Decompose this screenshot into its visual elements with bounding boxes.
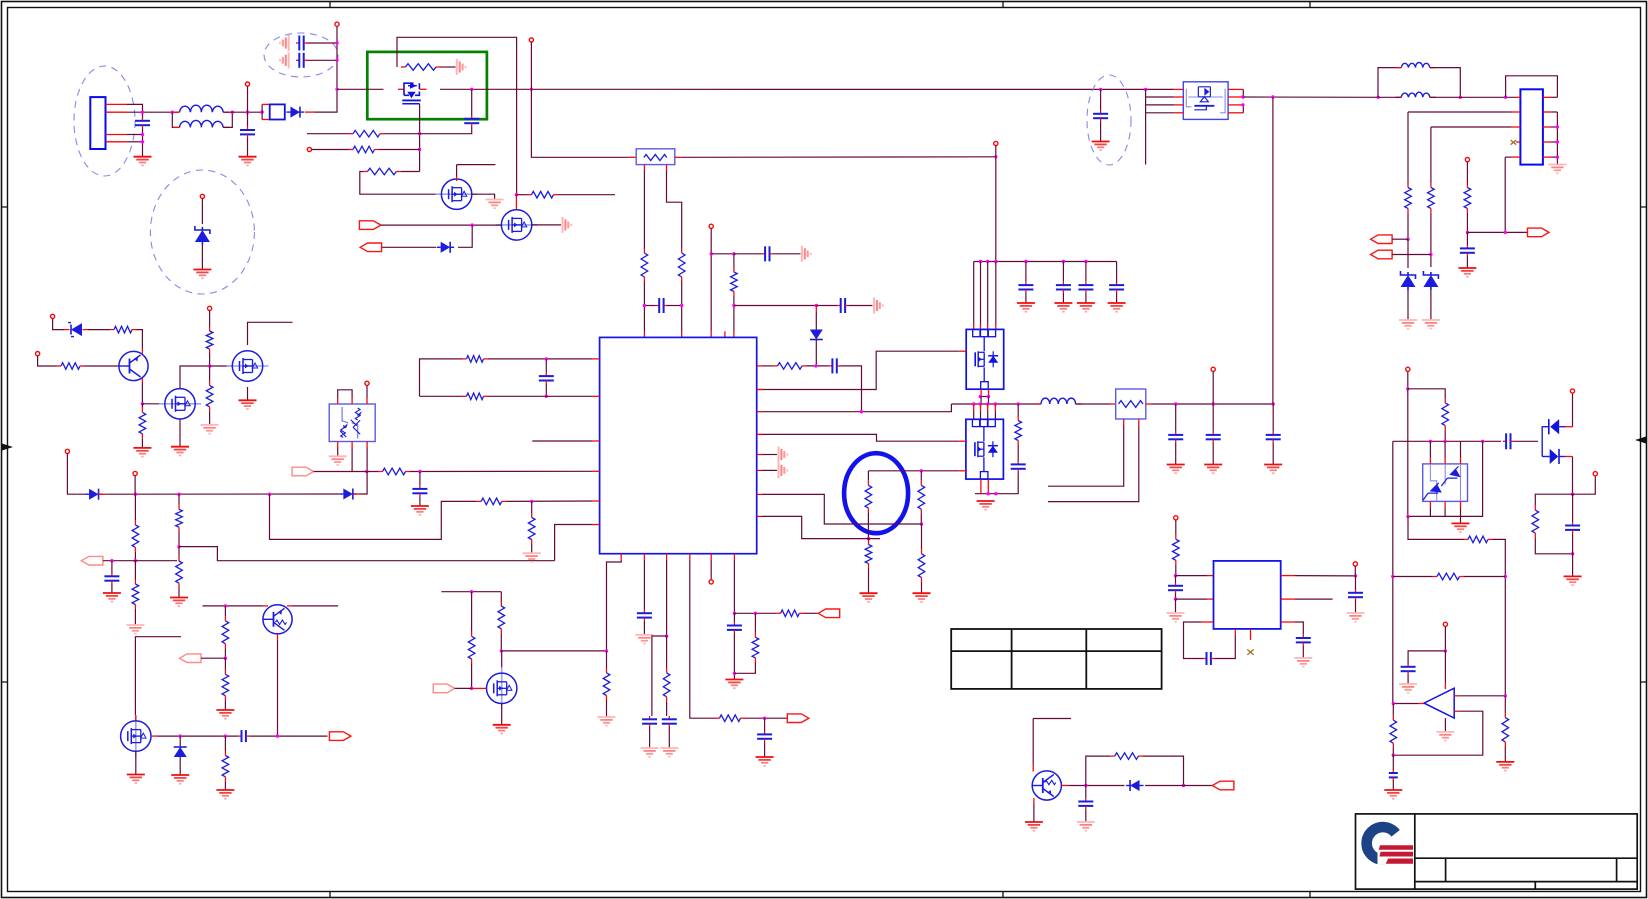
wire <box>764 742 766 757</box>
wire <box>868 470 959 472</box>
mosfet Q3 <box>496 210 538 240</box>
wire <box>816 305 837 307</box>
ground <box>457 59 466 75</box>
wire <box>397 37 517 194</box>
wire <box>868 539 870 540</box>
wire <box>401 171 420 173</box>
wire <box>1138 419 1140 426</box>
ground <box>641 748 659 757</box>
junction <box>732 304 735 307</box>
junction <box>1084 784 1087 787</box>
junction <box>171 111 174 114</box>
open pin <box>1570 389 1574 393</box>
wire <box>848 305 872 307</box>
wire <box>178 547 180 557</box>
wire <box>1175 594 1177 600</box>
wire <box>1466 232 1468 245</box>
wire <box>1429 507 1431 516</box>
pin <box>1250 629 1252 640</box>
wire <box>1392 780 1394 790</box>
wire <box>1392 254 1431 256</box>
wire <box>85 365 120 367</box>
wire <box>106 493 339 495</box>
junction <box>1504 231 1507 234</box>
wire <box>500 633 502 651</box>
wire <box>263 605 268 607</box>
ground <box>1436 732 1454 741</box>
resistor R28 <box>222 751 229 781</box>
wire <box>1145 89 1147 164</box>
capacitor <box>1266 432 1281 443</box>
junction <box>470 687 473 690</box>
resistor R23 <box>139 408 146 438</box>
pin <box>1228 96 1243 98</box>
wire <box>1444 507 1446 516</box>
wire <box>351 442 353 448</box>
port <box>433 684 455 693</box>
wire <box>745 717 787 719</box>
wire <box>1467 231 1527 233</box>
ground <box>779 447 788 463</box>
port <box>360 243 382 252</box>
wire <box>419 104 421 172</box>
ground <box>860 593 878 602</box>
wire <box>1017 445 1019 461</box>
junction <box>141 111 144 114</box>
resistor R2 <box>349 130 385 137</box>
capacitor <box>1078 282 1093 293</box>
junction <box>979 395 982 398</box>
wire <box>959 350 966 352</box>
pin J2-1 <box>1516 96 1521 98</box>
junction <box>733 672 736 675</box>
wire <box>1061 785 1068 787</box>
wire <box>1068 785 1124 787</box>
resistor R30 <box>498 602 505 634</box>
wire <box>1431 126 1512 128</box>
junction <box>418 132 421 135</box>
wire <box>1017 404 1019 416</box>
wire <box>88 329 110 331</box>
wire <box>1146 112 1175 114</box>
capacitor C17 <box>727 622 742 633</box>
wire <box>111 561 113 573</box>
resistor R33 <box>715 715 745 722</box>
pin <box>1228 112 1243 114</box>
junction <box>470 88 473 91</box>
p-mosfet Q1 <box>398 83 427 104</box>
open pin <box>65 449 69 453</box>
capacitor C29 <box>1078 798 1093 809</box>
no-connect cross <box>1247 650 1253 655</box>
junction <box>545 395 548 398</box>
wire <box>103 560 177 562</box>
wire <box>353 493 359 495</box>
junction <box>1429 253 1432 256</box>
ground <box>660 748 678 757</box>
wire <box>141 404 143 408</box>
wire <box>1272 404 1274 432</box>
wire <box>1100 122 1102 142</box>
junction <box>335 88 338 91</box>
wire <box>1207 598 1214 600</box>
wire <box>1085 293 1087 303</box>
junction <box>986 260 989 263</box>
wire <box>754 613 756 633</box>
port <box>81 556 103 565</box>
capacitor C25 <box>1168 583 1183 594</box>
wire <box>351 398 353 404</box>
port <box>292 467 314 476</box>
transistor Q9 <box>1032 771 1061 800</box>
wire <box>224 700 226 710</box>
capacitor <box>1206 432 1221 443</box>
wire <box>67 454 85 495</box>
capacitor C6 <box>762 246 773 261</box>
wire <box>995 262 997 324</box>
diode D11 <box>1126 780 1144 791</box>
ground <box>1204 465 1222 474</box>
resistor R37 <box>865 481 872 513</box>
wire <box>1393 711 1483 755</box>
wire <box>1504 157 1506 232</box>
wire <box>1504 746 1506 762</box>
wire <box>1176 575 1208 577</box>
resistor R16 <box>132 580 139 610</box>
junction <box>1241 103 1244 106</box>
wire <box>1085 262 1087 282</box>
wire <box>973 411 975 419</box>
wire <box>667 171 682 249</box>
capacitor C16 <box>757 731 772 742</box>
wire <box>456 177 458 182</box>
wire <box>681 282 683 332</box>
resistor R14 <box>378 468 410 475</box>
ground <box>280 35 289 51</box>
inductor L1a <box>174 105 230 112</box>
wire <box>1408 389 1445 399</box>
wire <box>307 133 349 135</box>
pin <box>1281 575 1295 577</box>
wire <box>127 134 143 136</box>
wire <box>1033 718 1071 720</box>
resistor R32 <box>663 668 670 701</box>
junction <box>665 634 668 637</box>
wire <box>1048 426 1124 487</box>
pin <box>592 524 599 526</box>
optocoupler U6 <box>1423 464 1468 502</box>
wire <box>762 434 959 441</box>
wire <box>762 365 773 367</box>
resistor R13 <box>462 393 488 400</box>
capacitor C3 <box>296 36 307 51</box>
wire <box>1565 456 1573 458</box>
wire <box>471 89 473 115</box>
sheet zone arrow left <box>2 444 13 451</box>
transistor Q1 <box>119 351 148 380</box>
wire <box>1430 96 1461 98</box>
wire <box>980 389 982 396</box>
wire <box>1408 441 1483 516</box>
op-amp U7 <box>1424 688 1454 718</box>
capacitor C1 <box>135 118 150 129</box>
wire <box>366 385 368 398</box>
wire <box>1572 457 1574 495</box>
wire <box>995 157 997 262</box>
wire <box>804 612 818 614</box>
wire <box>681 331 683 337</box>
resistor R46 <box>1433 573 1465 580</box>
wire <box>501 667 503 673</box>
wire <box>1444 626 1446 651</box>
wire <box>1430 213 1432 267</box>
wire <box>224 648 226 658</box>
wire <box>649 727 651 748</box>
wire <box>643 621 645 635</box>
wire <box>1430 127 1432 183</box>
junction <box>141 402 144 405</box>
wire <box>209 411 211 425</box>
wire <box>1466 213 1468 233</box>
wire <box>1175 443 1177 465</box>
resistor R45 <box>1464 536 1493 543</box>
wire <box>1295 575 1356 577</box>
ground <box>134 157 152 166</box>
wire <box>987 479 989 493</box>
wire <box>666 165 668 171</box>
title block <box>1356 814 1638 889</box>
capacitor C9 <box>539 373 554 384</box>
wire <box>141 383 143 404</box>
junction <box>177 545 180 548</box>
ground <box>171 447 189 456</box>
wire <box>1430 68 1461 98</box>
junction <box>110 559 113 562</box>
highlight green box <box>367 52 487 119</box>
wire <box>134 552 136 561</box>
ground <box>1167 613 1185 622</box>
wire <box>973 262 975 324</box>
capacitor C19 <box>1093 111 1108 122</box>
open pin <box>133 471 137 475</box>
junction <box>1444 649 1447 652</box>
wire <box>1062 293 1064 303</box>
wire <box>152 735 158 737</box>
wire <box>1460 458 1462 464</box>
wire <box>137 330 143 348</box>
wire <box>287 605 292 607</box>
capacitor C28 <box>1296 635 1311 646</box>
wire <box>64 329 70 331</box>
junction <box>1182 784 1185 787</box>
wire <box>668 727 670 748</box>
ground <box>1092 142 1110 151</box>
capacitor <box>1056 282 1071 293</box>
junction <box>1392 754 1395 757</box>
wire <box>710 560 712 580</box>
wire <box>764 718 766 731</box>
wire <box>135 637 181 715</box>
wire <box>1272 443 1274 465</box>
wire <box>1085 809 1087 822</box>
wire <box>1393 576 1433 578</box>
wire <box>1212 371 1214 404</box>
wire <box>987 404 989 411</box>
wire <box>734 253 762 255</box>
wire <box>1076 403 1111 405</box>
wire <box>531 42 629 157</box>
junction <box>1406 387 1409 390</box>
pin <box>1174 88 1183 90</box>
wire <box>1514 440 1538 442</box>
junction <box>179 734 182 737</box>
wire <box>867 513 869 539</box>
wire <box>1392 238 1408 240</box>
solid state relay U8 <box>1183 82 1228 120</box>
wire <box>134 476 136 495</box>
wire <box>224 606 226 616</box>
junction <box>987 395 990 398</box>
wire <box>1551 126 1557 128</box>
capacitor C8 <box>1011 461 1026 472</box>
wire <box>270 494 477 539</box>
capacitor C13 <box>637 610 652 621</box>
wire <box>1184 622 1204 659</box>
resistor R1 <box>401 64 441 71</box>
wire <box>643 171 645 249</box>
capacitor C7 <box>837 298 848 313</box>
wire <box>1295 598 1333 600</box>
wire <box>277 640 279 736</box>
junction <box>208 364 211 367</box>
resistor R27 <box>222 670 229 700</box>
wire <box>141 438 143 448</box>
junction <box>231 111 234 114</box>
zener diode D2 <box>195 226 210 245</box>
pin <box>757 411 762 413</box>
wire <box>1466 256 1468 268</box>
open pin <box>335 22 339 26</box>
pin <box>757 433 762 435</box>
wire <box>38 356 57 366</box>
wire <box>516 194 527 196</box>
wire <box>607 560 622 651</box>
wire <box>135 751 137 774</box>
wire <box>1454 695 1459 697</box>
wire <box>1032 719 1034 765</box>
junction <box>515 193 518 196</box>
resistor R42 <box>1428 183 1435 213</box>
junction <box>979 402 982 405</box>
wire <box>1504 696 1506 713</box>
wire <box>381 224 501 226</box>
wire <box>249 735 327 737</box>
pin <box>666 554 668 560</box>
wire <box>667 305 682 307</box>
wire <box>959 470 966 472</box>
ground <box>725 680 743 689</box>
ground <box>1399 320 1417 329</box>
wire <box>500 592 502 602</box>
junction <box>1099 88 1102 91</box>
port <box>180 654 202 663</box>
junction <box>814 364 817 367</box>
resistor R51 <box>1110 753 1143 760</box>
wire <box>666 701 668 716</box>
pin <box>1543 156 1551 158</box>
wire <box>1272 97 1274 404</box>
wire <box>1033 804 1035 822</box>
junction <box>1174 402 1177 405</box>
pin J1-3 <box>106 134 128 136</box>
wire <box>920 514 922 524</box>
wire <box>336 26 338 89</box>
wire <box>457 164 496 166</box>
resistor R22 <box>57 363 85 370</box>
junction <box>134 493 137 496</box>
wire <box>1460 96 1516 98</box>
open pin <box>208 306 212 310</box>
ground <box>635 635 653 644</box>
wire <box>815 312 817 330</box>
junction <box>1466 231 1469 234</box>
open pin <box>51 314 55 318</box>
wire <box>734 612 776 614</box>
wire <box>762 351 959 389</box>
wire <box>247 86 249 112</box>
ground <box>201 425 219 434</box>
wire <box>980 397 982 405</box>
wire <box>201 245 203 270</box>
pin J1-2 <box>106 111 128 113</box>
ground <box>127 775 145 784</box>
wire <box>710 228 712 331</box>
ground <box>563 217 572 233</box>
pin <box>620 554 622 560</box>
wire <box>179 757 181 775</box>
wire <box>99 493 107 495</box>
wire <box>210 365 233 367</box>
wire <box>366 398 368 404</box>
diode D9 <box>174 747 187 757</box>
wire <box>277 634 279 640</box>
wire <box>1572 533 1574 576</box>
pin <box>1543 141 1551 143</box>
wire <box>1378 96 1401 98</box>
wire <box>1214 635 1235 659</box>
junction <box>643 304 646 307</box>
wire <box>773 253 801 255</box>
ground <box>1017 303 1035 312</box>
junction <box>763 717 766 720</box>
junction <box>335 41 338 44</box>
junction <box>1144 88 1147 91</box>
wire <box>1551 141 1557 143</box>
wire <box>994 404 996 411</box>
wire <box>733 613 735 622</box>
pin <box>643 554 645 560</box>
capacitor C24 <box>1389 770 1398 781</box>
wire <box>1444 651 1446 683</box>
wire <box>472 687 487 689</box>
open pin <box>1593 472 1597 476</box>
wire <box>127 141 143 143</box>
wire <box>141 348 143 354</box>
junction <box>224 657 227 660</box>
junction <box>1571 552 1574 555</box>
open pin <box>1353 562 1357 566</box>
wire <box>1146 96 1175 98</box>
